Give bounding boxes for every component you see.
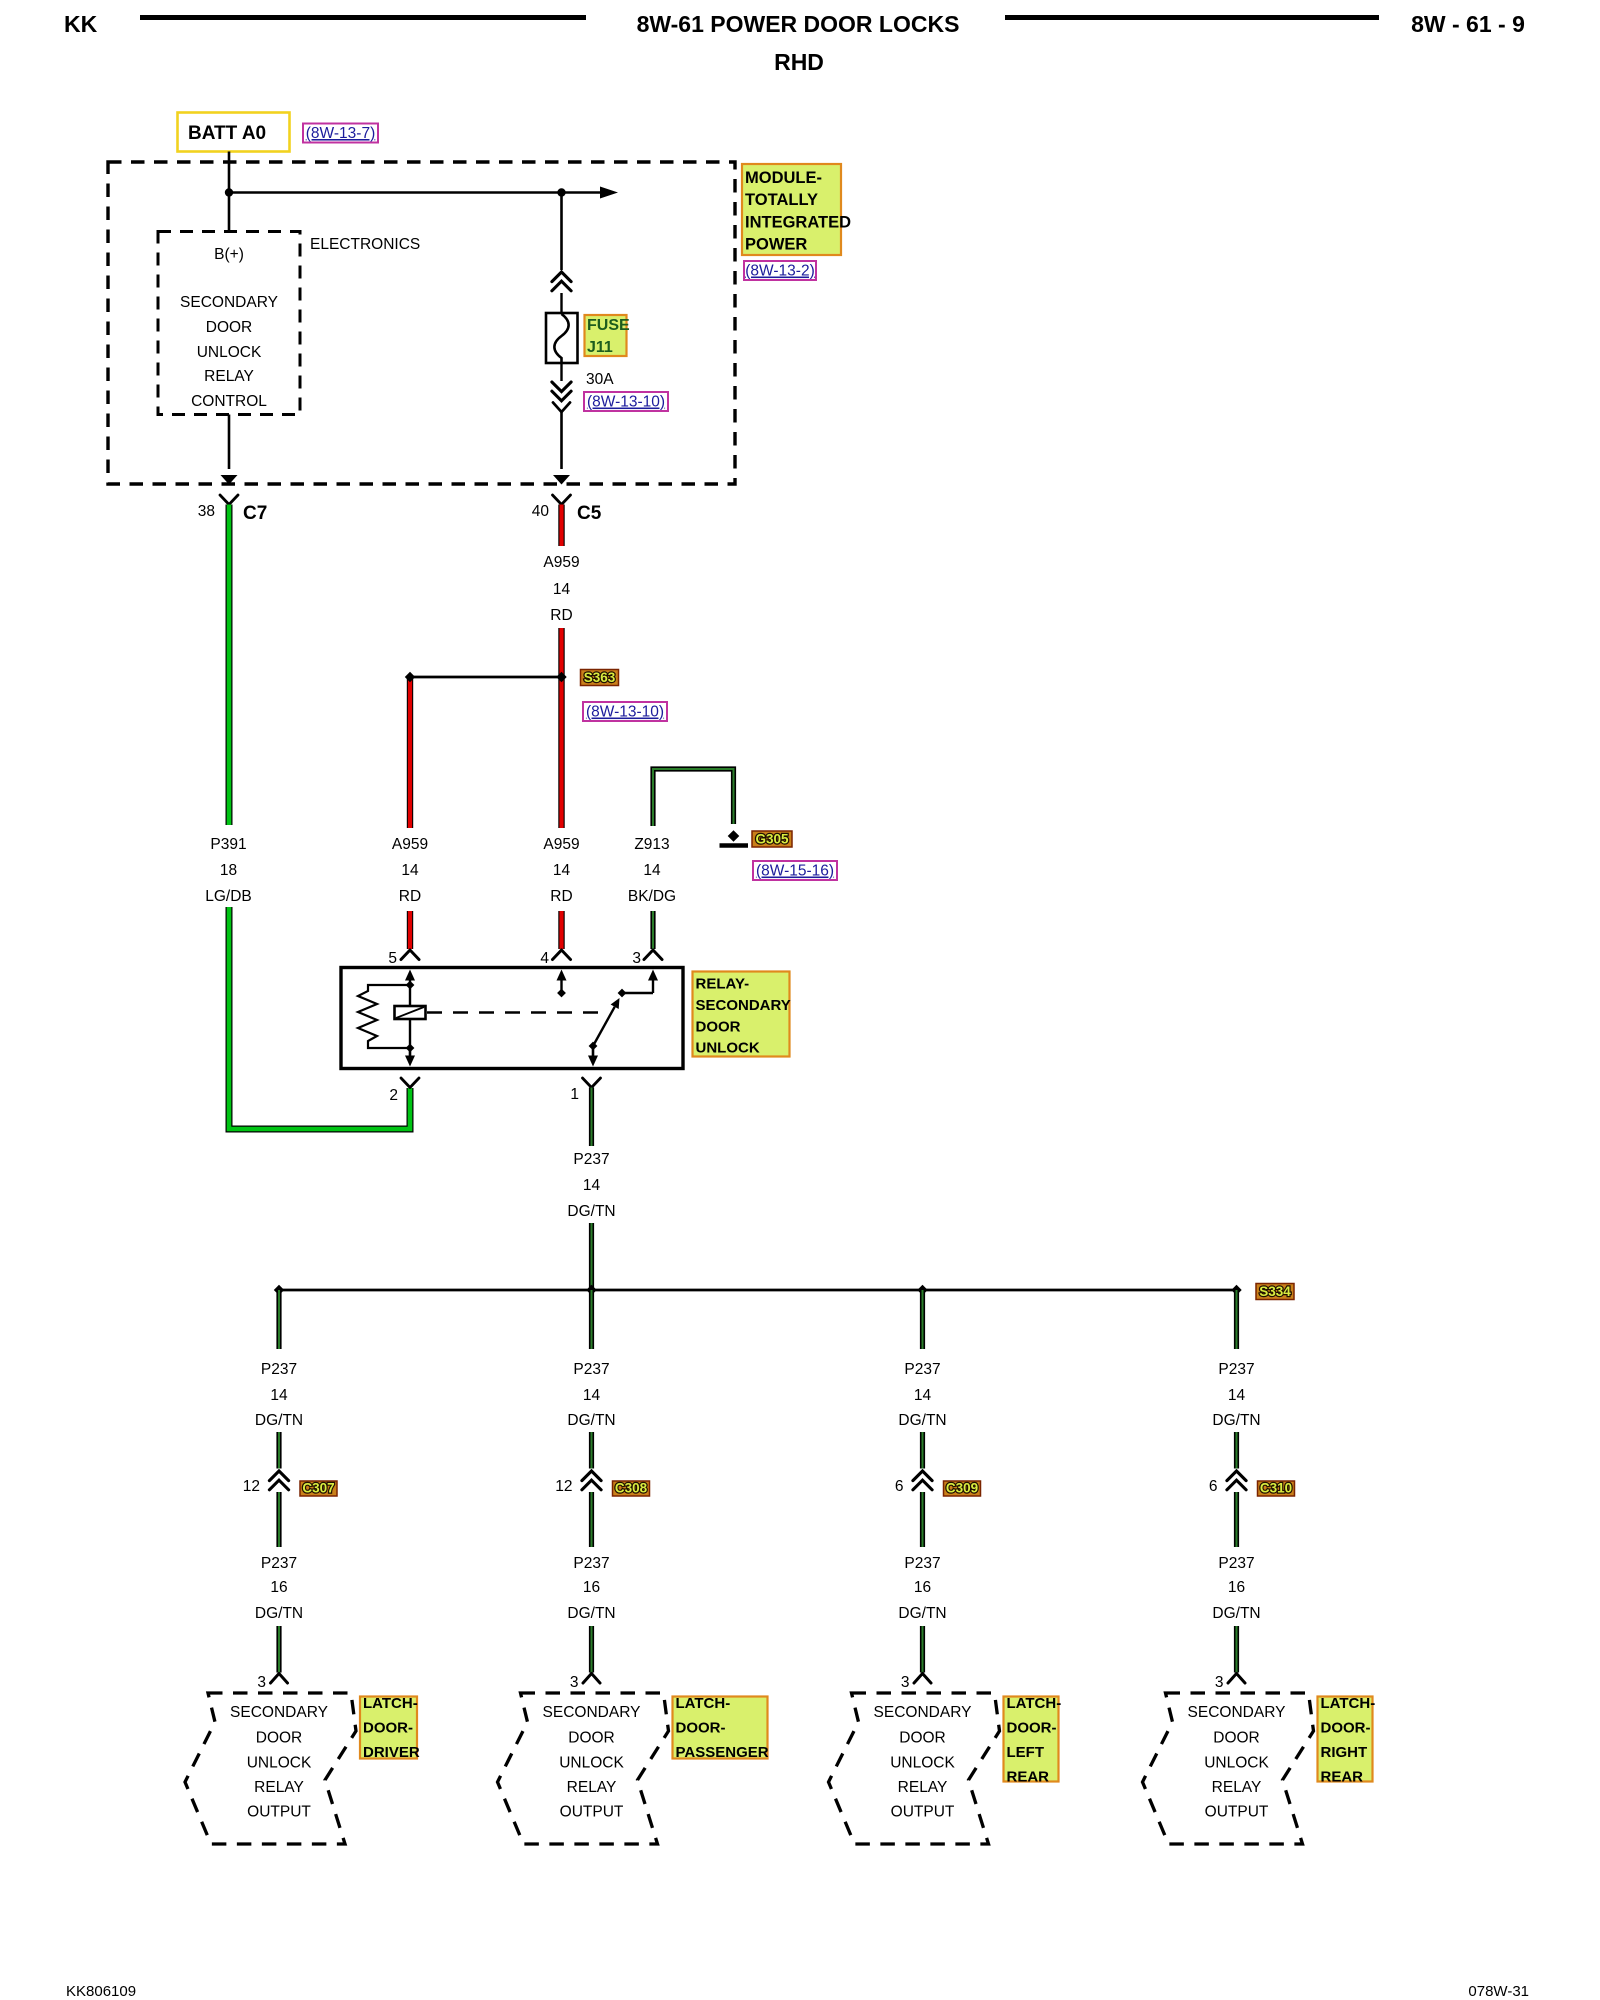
label FUSE J11 [585, 315, 631, 356]
svg-text:INTEGRATED: INTEGRATED [745, 213, 851, 231]
svg-text:3: 3 [1215, 1674, 1224, 1691]
svg-text:LATCH-: LATCH- [676, 1695, 731, 1712]
svg-text:P237: P237 [261, 1361, 297, 1378]
relay pin 1 internal arrow [588, 1046, 598, 1067]
svg-text:(8W-13-10): (8W-13-10) [586, 704, 664, 721]
svg-text:8W-61 POWER DOOR LOCKS: 8W-61 POWER DOOR LOCKS [637, 11, 960, 37]
wire branch 1 from S334 [276, 1290, 281, 1349]
label S363 [581, 670, 619, 686]
svg-text:(8W-13-2): (8W-13-2) [745, 263, 814, 280]
wire BATT A0 to B+ junction [228, 152, 231, 232]
svg-text:RELAY: RELAY [898, 1779, 948, 1796]
svg-text:DOOR-: DOOR- [363, 1720, 413, 1737]
svg-text:KK: KK [64, 11, 98, 37]
svg-text:OUTPUT: OUTPUT [560, 1804, 624, 1821]
svg-text:6: 6 [1209, 1478, 1218, 1495]
wire B+ bus with arrow [229, 187, 618, 199]
svg-text:DOOR-: DOOR- [676, 1720, 726, 1737]
connector C308 chevrons pin 12 [555, 1471, 601, 1495]
svg-text:RELAY: RELAY [254, 1779, 304, 1796]
pin 2 connector [389, 1078, 419, 1104]
svg-text:38: 38 [198, 503, 215, 520]
svg-text:16: 16 [1228, 1579, 1245, 1596]
block SECONDARY DOOR UNLOCK RELAY OUTPUT 1 [185, 1693, 356, 1844]
svg-text:LATCH-: LATCH- [363, 1695, 418, 1712]
svg-text:SECONDARY: SECONDARY [180, 294, 278, 311]
label P237 14 DG/TN branch 4 [1212, 1361, 1260, 1429]
label A959 14 RD left [392, 836, 428, 905]
svg-text:SECONDARY: SECONDARY [874, 1704, 972, 1721]
pin 38 connector C7 [198, 495, 268, 524]
svg-text:4: 4 [540, 950, 549, 967]
wire B+ control to pin 38 with arrow [221, 415, 238, 485]
label P237 16 DG/TN branch 1 [255, 1555, 303, 1622]
label S334 [1256, 1284, 1294, 1300]
label Z913 14 BK/DG [628, 836, 676, 905]
pin 40 connector C5 [532, 495, 602, 524]
label latch door 2 [673, 1695, 769, 1761]
label P391 18 LG/DB [205, 836, 252, 905]
svg-text:ELECTRONICS: ELECTRONICS [310, 236, 420, 253]
svg-text:UNLOCK: UNLOCK [559, 1755, 624, 1772]
svg-text:P237: P237 [261, 1555, 297, 1572]
wire Z913 to pin 3 [650, 911, 655, 949]
label P237 14 DG/TN branch 1 [255, 1361, 303, 1429]
svg-text:DG/TN: DG/TN [898, 1412, 946, 1429]
svg-text:RELAY-: RELAY- [696, 976, 750, 993]
connector C310 chevrons pin 6 [1209, 1471, 1246, 1495]
wire junction to fuse [560, 193, 563, 271]
svg-text:RD: RD [550, 888, 572, 905]
pin 3 connector latch 3 [901, 1674, 931, 1692]
pin 1 connector [570, 1078, 600, 1103]
relay pin 3 internal contact [618, 970, 658, 998]
svg-text:14: 14 [553, 862, 571, 879]
block SECONDARY DOOR UNLOCK RELAY OUTPUT 2 [498, 1693, 669, 1844]
svg-text:UNLOCK: UNLOCK [197, 344, 262, 361]
svg-text:KK806109: KK806109 [66, 1983, 136, 2000]
wire branch 1 to connector C307 [276, 1432, 281, 1469]
svg-text:14: 14 [270, 1387, 288, 1404]
svg-text:OUTPUT: OUTPUT [247, 1804, 311, 1821]
svg-text:(8W-13-10): (8W-13-10) [587, 394, 665, 411]
label latch door 4 [1318, 1695, 1376, 1786]
svg-text:DG/TN: DG/TN [1212, 1412, 1260, 1429]
label C310 [1258, 1481, 1295, 1497]
label C307 [300, 1481, 337, 1497]
svg-text:A959: A959 [543, 836, 579, 853]
svg-text:14: 14 [553, 581, 571, 598]
svg-text:C308: C308 [615, 1481, 648, 1496]
splice S363 [405, 672, 567, 682]
svg-text:(8W-13-7): (8W-13-7) [306, 125, 375, 142]
pin 3 connector latch 4 [1215, 1674, 1245, 1692]
svg-text:P237: P237 [904, 1555, 940, 1572]
svg-text:5: 5 [388, 950, 397, 967]
relay pin 2 internal arrow [405, 1048, 415, 1067]
svg-text:14: 14 [914, 1387, 932, 1404]
wire A959 right branch to pin 4 [558, 911, 564, 949]
block B(+) SECONDARY DOOR UNLOCK RELAY CONTROL [158, 232, 300, 415]
wire branch 4 below C310 [1234, 1492, 1239, 1547]
wire branch 2 to latch pin 3 [589, 1626, 594, 1673]
label P237 14 DG/TN branch 2 [567, 1361, 615, 1429]
svg-text:LG/DB: LG/DB [205, 888, 252, 905]
wire chevrons to fuse [560, 293, 562, 313]
svg-text:S363: S363 [584, 670, 616, 685]
footer [66, 1983, 1529, 2000]
svg-text:C309: C309 [946, 1481, 978, 1496]
wire branch 1 to latch pin 3 [276, 1626, 281, 1673]
label C309 [944, 1481, 981, 1497]
svg-text:BATT A0: BATT A0 [188, 123, 266, 144]
svg-text:RHD: RHD [774, 49, 824, 75]
wire Z913 ground loop [653, 769, 734, 826]
connector half below fuse [553, 403, 570, 413]
svg-text:P237: P237 [1218, 1361, 1254, 1378]
svg-text:P237: P237 [573, 1151, 609, 1168]
svg-text:RIGHT: RIGHT [1321, 1744, 1368, 1761]
svg-text:P237: P237 [573, 1555, 609, 1572]
link (8W-13-10) splice [583, 702, 667, 721]
label RELAY-SECONDARY DOOR UNLOCK [693, 972, 791, 1057]
wire branch 3 to connector C309 [920, 1432, 925, 1469]
svg-text:SECONDARY: SECONDARY [1188, 1704, 1286, 1721]
svg-text:RD: RD [550, 607, 572, 624]
fuse J11 element [546, 313, 578, 363]
svg-text:DOOR: DOOR [696, 1018, 741, 1035]
svg-text:12: 12 [555, 1478, 572, 1495]
wire fuse to connector [560, 363, 562, 381]
svg-text:DOOR: DOOR [568, 1730, 615, 1747]
svg-text:P237: P237 [573, 1361, 609, 1378]
link (8W-13-2) [744, 261, 816, 280]
svg-text:3: 3 [570, 1674, 579, 1691]
wire P391 18 LG/DB [226, 505, 233, 826]
wire branch 2 to connector C308 [589, 1432, 594, 1469]
svg-text:UNLOCK: UNLOCK [1204, 1755, 1269, 1772]
svg-text:8W - 61 - 9: 8W - 61 - 9 [1411, 11, 1525, 37]
svg-text:RELAY: RELAY [204, 368, 254, 385]
svg-text:LATCH-: LATCH- [1007, 1695, 1062, 1712]
wire branch 3 to latch pin 3 [920, 1626, 925, 1673]
link (8W-13-7) [303, 124, 378, 143]
pin 3 connector latch 1 [257, 1674, 287, 1692]
link (8W-13-10) fuse [584, 392, 668, 411]
relay pin 5 internal arrow [405, 970, 415, 986]
svg-text:B(+): B(+) [214, 246, 244, 263]
label latch door 3 [1004, 1695, 1062, 1786]
relay coil [395, 985, 426, 1048]
wire branch 2 below C308 [589, 1492, 594, 1547]
svg-text:BK/DG: BK/DG [628, 888, 676, 905]
svg-text:DG/TN: DG/TN [898, 1605, 946, 1622]
wire branch 4 to latch pin 3 [1234, 1626, 1239, 1673]
wire A959 left branch to pin 5 [407, 911, 413, 949]
connector chevrons below fuse [552, 382, 571, 401]
wire branch 4 from S334 [1234, 1290, 1239, 1349]
svg-text:SECONDARY: SECONDARY [543, 1704, 641, 1721]
svg-text:14: 14 [401, 862, 419, 879]
svg-text:TOTALLY: TOTALLY [745, 191, 818, 209]
svg-text:14: 14 [643, 862, 661, 879]
connector C307 chevrons pin 12 [243, 1471, 289, 1495]
label C308 [613, 1481, 650, 1497]
node B+ feed junction [225, 188, 233, 196]
svg-text:G305: G305 [755, 832, 789, 847]
svg-text:UNLOCK: UNLOCK [247, 1755, 312, 1772]
svg-text:OUTPUT: OUTPUT [891, 1804, 955, 1821]
svg-text:DOOR: DOOR [899, 1730, 946, 1747]
svg-text:REAR: REAR [1007, 1769, 1050, 1786]
wire P237 to splice S334 [589, 1223, 594, 1290]
label P237 16 DG/TN branch 3 [898, 1555, 946, 1622]
svg-text:C310: C310 [1260, 1481, 1292, 1496]
svg-text:A959: A959 [392, 836, 428, 853]
wire branch 3 below C309 [920, 1492, 925, 1547]
svg-text:DOOR-: DOOR- [1321, 1720, 1371, 1737]
svg-text:SECONDARY: SECONDARY [230, 1704, 328, 1721]
svg-text:DG/TN: DG/TN [567, 1412, 615, 1429]
svg-text:LEFT: LEFT [1007, 1744, 1045, 1761]
label A959 14 RD upper [543, 554, 579, 624]
svg-text:C7: C7 [243, 503, 267, 524]
svg-text:DG/TN: DG/TN [567, 1605, 615, 1622]
svg-text:RELAY: RELAY [1212, 1779, 1262, 1796]
svg-text:Z913: Z913 [634, 836, 669, 853]
node relay coil top [406, 981, 415, 990]
svg-text:(8W-15-16): (8W-15-16) [756, 863, 834, 880]
svg-text:3: 3 [257, 1674, 266, 1691]
svg-text:3: 3 [632, 950, 641, 967]
svg-text:REAR: REAR [1321, 1769, 1364, 1786]
svg-text:30A: 30A [586, 371, 614, 388]
wire A959 left branch upper [407, 677, 413, 828]
svg-text:MODULE-: MODULE- [745, 169, 822, 187]
svg-text:CONTROL: CONTROL [191, 393, 267, 410]
module TIPM dashed outline [108, 162, 735, 484]
label P237 14 DG/TN pin1 [567, 1151, 615, 1220]
svg-text:16: 16 [270, 1579, 287, 1596]
svg-text:DG/TN: DG/TN [1212, 1605, 1260, 1622]
svg-text:16: 16 [914, 1579, 931, 1596]
svg-text:C307: C307 [302, 1481, 334, 1496]
svg-text:DG/TN: DG/TN [255, 1412, 303, 1429]
battery feed box BATT A0 [178, 113, 290, 152]
svg-text:P237: P237 [1218, 1555, 1254, 1572]
wire A959 right branch upper [558, 677, 564, 828]
splice S334 bus [274, 1285, 1242, 1295]
svg-text:3: 3 [901, 1674, 910, 1691]
relay actuation dashed line [427, 1011, 607, 1014]
wire branch 3 from S334 [920, 1290, 925, 1349]
svg-text:DG/TN: DG/TN [567, 1203, 615, 1220]
relay pin 4 internal contact [557, 970, 567, 998]
svg-text:14: 14 [583, 1177, 601, 1194]
label A959 14 RD right [543, 836, 579, 905]
node fuse feed junction [557, 188, 565, 196]
svg-text:P237: P237 [904, 1361, 940, 1378]
svg-text:DRIVER: DRIVER [363, 1744, 420, 1761]
ground G305 [720, 830, 749, 845]
svg-text:FUSE: FUSE [587, 317, 630, 334]
svg-text:UNLOCK: UNLOCK [890, 1755, 955, 1772]
svg-text:DOOR: DOOR [1213, 1730, 1260, 1747]
link (8W-15-16) [753, 861, 837, 880]
svg-text:18: 18 [220, 862, 237, 879]
label G305 [752, 831, 792, 847]
svg-text:2: 2 [389, 1087, 398, 1104]
svg-text:J11: J11 [587, 339, 613, 356]
connector C309 chevrons pin 6 [895, 1471, 932, 1495]
svg-text:OUTPUT: OUTPUT [1205, 1804, 1269, 1821]
wire A959 from C5 [558, 505, 564, 547]
connector chevrons above fuse [552, 272, 571, 291]
relay K1 RELAY-SECONDARY DOOR UNLOCK outline [341, 968, 683, 1069]
svg-text:RELAY: RELAY [567, 1779, 617, 1796]
page header [64, 11, 1525, 75]
block SECONDARY DOOR UNLOCK RELAY OUTPUT 4 [1143, 1693, 1314, 1844]
svg-text:DOOR-: DOOR- [1007, 1720, 1057, 1737]
svg-text:A959: A959 [543, 554, 579, 571]
wire P237 from pin 1 [589, 1088, 594, 1147]
svg-text:DOOR: DOOR [206, 319, 253, 336]
svg-text:16: 16 [583, 1579, 600, 1596]
pin 3 connector latch 2 [570, 1674, 600, 1692]
svg-text:14: 14 [583, 1387, 601, 1404]
label latch door 1 [360, 1695, 420, 1761]
label P237 14 DG/TN branch 3 [898, 1361, 946, 1429]
svg-text:40: 40 [532, 503, 550, 520]
wire branch 4 to connector C310 [1234, 1432, 1239, 1469]
wire to pin 40 with arrow [553, 412, 570, 485]
svg-text:1: 1 [570, 1086, 579, 1103]
svg-text:DOOR: DOOR [256, 1730, 303, 1747]
svg-text:12: 12 [243, 1478, 260, 1495]
svg-text:S334: S334 [1259, 1284, 1291, 1299]
wire branch 1 below C307 [276, 1492, 281, 1547]
svg-text:P391: P391 [210, 836, 246, 853]
svg-text:UNLOCK: UNLOCK [696, 1040, 760, 1057]
svg-text:LATCH-: LATCH- [1321, 1695, 1376, 1712]
svg-text:SECONDARY: SECONDARY [696, 997, 791, 1014]
svg-text:PASSENGER: PASSENGER [676, 1744, 769, 1761]
svg-text:DG/TN: DG/TN [255, 1605, 303, 1622]
label MODULE-TOTALLY INTEGRATED POWER [742, 164, 851, 255]
label P237 16 DG/TN branch 4 [1212, 1555, 1260, 1622]
svg-text:14: 14 [1228, 1387, 1246, 1404]
relay switch arm [589, 998, 620, 1050]
svg-text:C5: C5 [577, 503, 602, 524]
wire P391 lower segment [229, 907, 410, 1129]
label P237 16 DG/TN branch 2 [567, 1555, 615, 1622]
svg-text:6: 6 [895, 1478, 904, 1495]
pin 5 connector [388, 950, 419, 967]
wire branch 2 from S334 [589, 1290, 594, 1349]
pin 4 connector [540, 950, 570, 967]
node relay coil bottom [406, 1044, 415, 1053]
pin 3 connector [632, 950, 662, 967]
wire A959 to splice S363 [558, 628, 564, 677]
relay coil resistor [358, 985, 410, 1048]
svg-text:POWER: POWER [745, 236, 807, 254]
block SECONDARY DOOR UNLOCK RELAY OUTPUT 3 [829, 1693, 1000, 1844]
svg-text:RD: RD [399, 888, 421, 905]
svg-text:078W-31: 078W-31 [1468, 1983, 1529, 2000]
